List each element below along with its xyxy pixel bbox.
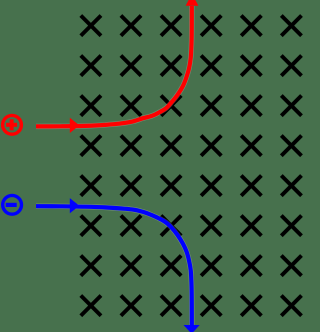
field-into-page cross r1c5 [241,16,261,36]
field-into-page cross r3c6 [281,96,301,116]
field-into-page cross r5c6 [281,176,301,196]
field-into-page cross r3c1 [81,96,101,116]
field-into-page cross r7c3 [161,256,181,276]
field-into-page cross r8c1 [81,296,101,316]
field-into-page cross r5c1 [81,176,101,196]
field-into-page cross r3c5 [241,96,261,116]
field-into-page cross r2c4 [201,56,221,76]
blue mid arrowhead (velocity of - charge) [70,198,80,213]
field-into-page cross r1c3 [161,16,181,36]
field-into-page cross r6c6 [281,216,301,236]
field-into-page cross r8c6 [281,296,301,316]
field-into-page cross r1c2 [121,16,141,36]
field-into-page cross r5c5 [241,176,261,196]
negative charge trajectory (blue) white casing [36,206,192,326]
field-into-page cross r7c1 [81,256,101,276]
field-into-page cross r8c3 [161,296,181,316]
field-into-page cross r2c2 [121,56,141,76]
field-into-page cross r5c3 [161,176,181,196]
field-into-page cross r6c5 [241,216,261,236]
field-into-page cross r2c5 [241,56,261,76]
field-into-page cross r3c4 [201,96,221,116]
field-into-page cross r8c5 [241,296,261,316]
positive charge trajectory (red) [36,6,192,126]
red end arrowhead (top) [186,0,199,6]
field-into-page cross r6c3 [161,216,181,236]
field-into-page cross r5c2 [121,176,141,196]
field-into-page cross r8c2 [121,296,141,316]
blue end arrowhead (bottom) [184,325,200,332]
field-into-page cross r7c6 [281,256,301,276]
field-into-page cross r3c2 [121,96,141,116]
field-into-page cross r4c1 [81,136,101,156]
positive charge trajectory (red) white casing [36,6,192,126]
field-into-page cross r1c4 [201,16,221,36]
field-into-page cross r3c3 [161,96,181,116]
field-into-page cross r5c4 [201,176,221,196]
field-into-page cross r2c6 [281,56,301,76]
field-into-page cross r4c6 [281,136,301,156]
field-into-page cross r2c3 [161,56,181,76]
field-into-page cross r8c4 [201,296,221,316]
field-into-page cross r4c2 [121,136,141,156]
positive charge symbol (circled plus) [3,115,22,134]
negative charge symbol (circled minus) [3,195,22,214]
field-into-page cross r4c5 [241,136,261,156]
field-into-page cross r4c3 [161,136,181,156]
field-into-page cross r6c4 [201,216,221,236]
field-into-page cross r7c2 [121,256,141,276]
field-into-page cross r6c2 [121,216,141,236]
field-into-page cross r4c4 [201,136,221,156]
negative charge trajectory (blue) [36,206,192,326]
field-into-page cross r2c1 [81,56,101,76]
field-into-page cross r6c1 [81,216,101,236]
field-into-page cross r7c5 [241,256,261,276]
field-into-page cross r1c6 [281,16,301,36]
field-into-page cross r7c4 [201,256,221,276]
red mid arrowhead (velocity of + charge) [70,118,80,133]
field-into-page cross r1c1 [81,16,101,36]
